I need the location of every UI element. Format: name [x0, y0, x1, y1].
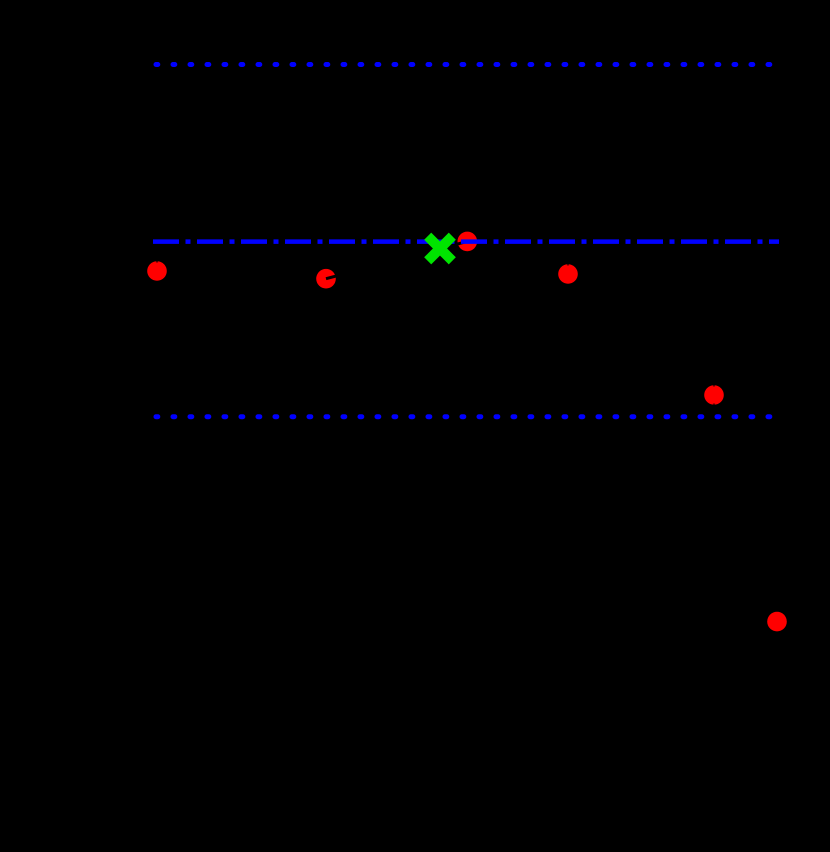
red data point 5 — [704, 385, 724, 405]
red data point 2 — [316, 269, 336, 289]
green X marker — [424, 233, 456, 265]
red data point 1 — [147, 261, 167, 281]
black error-bar notch on point 4 — [567, 262, 569, 266]
blue dotted line top — [156, 62, 772, 67]
black error-bar notch on point 1 — [156, 259, 158, 263]
red data point 4 — [558, 264, 578, 284]
black error-bar notches on point 5 — [713, 383, 715, 387]
blue dotted line bottom — [156, 414, 771, 419]
blue dash-dot line middle — [153, 239, 779, 244]
red data point 3 — [458, 232, 478, 252]
red data point 6 — [767, 612, 787, 632]
black connector segment over points 2-3 — [326, 241, 467, 278]
